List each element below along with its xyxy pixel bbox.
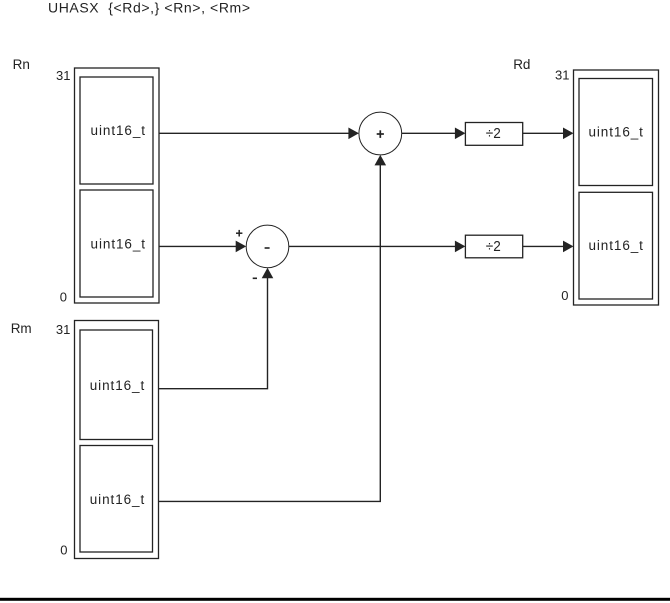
wire Rm[15:0] to adder (horizontal + vertical) [159, 165, 381, 502]
svg-text:0: 0 [60, 290, 67, 305]
wire divider 1 to Rd high [523, 132, 564, 134]
svg-text:0: 0 [60, 543, 67, 558]
arrowhead into divider 2 [455, 241, 466, 253]
arrowhead into divider 1 [455, 128, 466, 140]
svg-text:uint16_t: uint16_t [588, 238, 643, 253]
arrowhead into subtractor (left) [236, 241, 247, 253]
svg-text:Rn: Rn [13, 57, 30, 72]
adder U1 [359, 112, 402, 155]
minus sign inside subtractor [265, 247, 270, 249]
svg-text:÷2: ÷2 [486, 125, 501, 142]
plus sign inside adder [377, 130, 384, 138]
register Rd outer box [574, 70, 659, 305]
arrowhead into adder [348, 128, 359, 140]
register Rn outer box [75, 68, 160, 303]
wire subtractor to divider 2 [289, 245, 456, 247]
svg-text:uint16_t: uint16_t [90, 492, 145, 507]
svg-text:31: 31 [56, 322, 70, 337]
page footer rule [0, 598, 670, 601]
wire Rn[15:0] to subtractor [159, 245, 236, 247]
svg-text:Rm: Rm [11, 321, 32, 336]
arrowhead into adder bottom [375, 155, 387, 166]
svg-text:31: 31 [56, 68, 70, 83]
minus sign at subtractor bottom input [253, 277, 257, 279]
register Rd field [15:0] [579, 192, 653, 299]
wire divider 2 to Rd low [523, 245, 564, 247]
arrowhead into Rd high [563, 128, 574, 140]
wire Rn[31:16] to adder [159, 132, 349, 134]
divider box 2 (÷2) [465, 235, 522, 258]
register Rm outer box [75, 321, 159, 559]
svg-text:0: 0 [561, 288, 568, 303]
divider box 1 (÷2) [465, 123, 522, 146]
arrowhead into subtractor bottom [262, 268, 274, 279]
plus sign at subtractor input [236, 230, 242, 237]
register Rn field [31:16] [80, 77, 153, 184]
register Rm field [31:16] [80, 330, 153, 440]
register Rm field [15:0] [80, 446, 153, 553]
wire adder to divider 1 [402, 132, 456, 134]
wire Rm[31:16] to subtractor (horizontal + vertical) [159, 278, 268, 389]
svg-text:UHASX {<Rd>,} <Rn>, <Rm>: UHASX {<Rd>,} <Rn>, <Rm> [48, 0, 250, 15]
svg-text:Rd: Rd [513, 57, 530, 72]
svg-text:÷2: ÷2 [486, 238, 501, 255]
svg-text:uint16_t: uint16_t [90, 378, 145, 393]
register Rd field [31:16] [579, 79, 653, 186]
svg-text:uint16_t: uint16_t [91, 123, 146, 138]
svg-text:uint16_t: uint16_t [91, 236, 146, 251]
subtractor U2 [246, 225, 289, 268]
arrowhead into Rd low [563, 241, 574, 253]
register Rn field [15:0] [80, 190, 153, 297]
svg-text:uint16_t: uint16_t [588, 125, 643, 140]
svg-text:31: 31 [555, 68, 569, 83]
